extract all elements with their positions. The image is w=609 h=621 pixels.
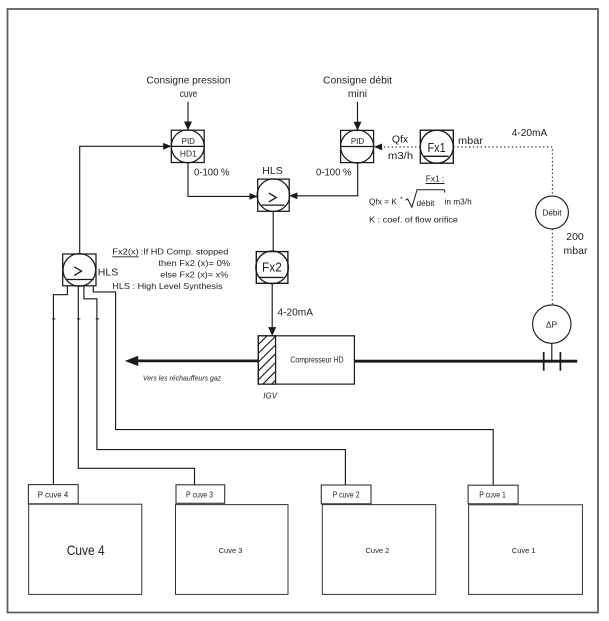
svg-text:Consigne pression: Consigne pression (147, 75, 231, 87)
wire arrow into PID HD1 top (184, 102, 192, 131)
wire HLS middle to Fx2 (272, 211, 274, 251)
svg-text:Fx2(x): Fx2(x) (112, 247, 139, 257)
label K : coef. of flow orifice (369, 215, 458, 225)
svg-text:P cuve 4: P cuve 4 (38, 489, 69, 499)
transmitter box P cuve 3 (176, 485, 225, 504)
label 4-20mA (Fx2 output) (278, 306, 314, 318)
transmitter Debit circle (536, 196, 569, 229)
instrument Fx2 (256, 251, 289, 284)
svg-text:in m3/h: in m3/h (445, 196, 473, 206)
svg-text:else Fx2 (x)= x%: else Fx2 (x)= x% (160, 270, 229, 280)
label 4-20mA (top right) (512, 127, 548, 139)
transmitter box P cuve 1 (468, 485, 518, 504)
wire feedback HLS-left up to PID HD1 (80, 143, 172, 254)
svg-text:HD1: HD1 (180, 149, 197, 159)
svg-text:P cuve 2: P cuve 2 (333, 491, 360, 500)
label Consigne débit mini (323, 75, 392, 100)
wire HLS-left to P cuve 4 (53, 286, 67, 485)
svg-text:m3/h: m3/h (388, 150, 413, 162)
label Fx1 : (underlined) (426, 173, 445, 183)
label HLS (above middle selector) (262, 165, 282, 177)
junction ticks on tank wires (52, 318, 99, 320)
svg-text:Cuve 1: Cuve 1 (512, 546, 536, 555)
svg-text:P cuve 3: P cuve 3 (186, 490, 213, 499)
svg-text:mbar: mbar (458, 135, 484, 147)
svg-text:Cuve 4: Cuve 4 (67, 542, 105, 558)
wire dotted Fx1 to Debit transmitter (453, 147, 552, 196)
tank Cuve 1 (469, 505, 583, 595)
label 200 mbar (564, 231, 588, 257)
transmitter box P cuve 2 (321, 485, 371, 504)
svg-text:200: 200 (566, 231, 584, 243)
svg-text:Fx1 :: Fx1 : (426, 173, 444, 183)
orifice bar right (559, 352, 561, 371)
svg-text:Vers les réchauffeurs gaz: Vers les réchauffeurs gaz (143, 373, 221, 382)
svg-text:P cuve 1: P cuve 1 (479, 491, 506, 500)
label Vers les réchauffeurs gaz (143, 373, 221, 382)
label HLS (right of left selector) (98, 266, 118, 278)
label Qfx (392, 133, 409, 145)
svg-text:4-20mA: 4-20mA (512, 127, 548, 139)
pipe arrow left to reheaters (125, 356, 258, 366)
svg-text:Fx1: Fx1 (428, 140, 446, 155)
svg-text:mbar: mbar (564, 245, 588, 257)
svg-text:cuve: cuve (180, 88, 198, 100)
svg-text:4-20mA: 4-20mA (278, 306, 314, 318)
svg-text:HLS: HLS (262, 165, 282, 177)
wire HLS-left to P cuve 1 (93, 286, 493, 485)
orifice bar left (543, 352, 545, 371)
label Consigne pression cuve (147, 75, 231, 100)
wire Fx2 to compressor (arrow) (268, 283, 276, 336)
instrument Fx1 (420, 130, 453, 163)
tank Cuve 2 (322, 505, 435, 595)
svg-text:débit: débit (417, 198, 436, 208)
wire PID HD1 output to HLS middle (188, 163, 258, 200)
svg-text:Qfx = K: Qfx = K (369, 196, 397, 206)
wire PID debit output to HLS middle (289, 163, 358, 200)
svg-text:Débit: Débit (543, 208, 563, 217)
svg-text:K : coef. of flow orifice: K : coef. of flow orifice (369, 215, 458, 225)
wire HLS-left to P cuve 3 (78, 286, 194, 485)
transmitter DeltaP circle (533, 305, 571, 343)
pipe right (thick) (355, 360, 578, 363)
svg-text:Cuve 2: Cuve 2 (366, 546, 390, 555)
label 0-100 % (left) (194, 166, 230, 178)
wire DeltaP stem to pipe (551, 343, 553, 360)
label m3/h (388, 150, 413, 162)
sqrt radical (406, 190, 446, 208)
IGV hatched box (258, 327, 275, 397)
svg-text:HLS : High Level Synthesis: HLS : High Level Synthesis (112, 281, 222, 291)
label 0-100 % (right) (316, 166, 352, 178)
svg-text:then Fx2 (x)= 0%: then Fx2 (x)= 0% (158, 258, 231, 268)
instrument PID HD1 (171, 130, 204, 163)
label mbar (458, 135, 484, 147)
svg-text:Fx2: Fx2 (262, 260, 282, 275)
svg-text:0-100 %: 0-100 % (194, 166, 230, 178)
svg-text:Compresseur HD: Compresseur HD (290, 356, 343, 365)
wire dotted Fx1 to PID (arrow) (374, 144, 420, 151)
tank Cuve 4 (29, 504, 142, 594)
svg-text:IGV: IGV (263, 391, 277, 400)
wire dotted Debit to DeltaP (551, 229, 553, 305)
instrument HLS selector middle (257, 179, 290, 212)
instrument PID (debit) (341, 130, 374, 163)
svg-text:0-100 %: 0-100 % (316, 166, 352, 178)
svg-text:Cuve 3: Cuve 3 (219, 546, 243, 555)
tank Cuve 3 (176, 505, 289, 595)
svg-text:HLS: HLS (98, 266, 118, 278)
wire HLS-left to P cuve 2 (84, 286, 346, 485)
svg-text:Qfx: Qfx (392, 133, 409, 145)
svg-text:PID: PID (182, 137, 196, 146)
instrument HLS selector left (63, 254, 96, 287)
formula Qfx = K * sqrt(debit) in m3/h (369, 196, 472, 208)
svg-text::If HD Comp. stopped: :If HD Comp. stopped (141, 247, 229, 257)
svg-text:Consigne débit: Consigne débit (323, 75, 392, 87)
label IGV (263, 391, 277, 400)
svg-text:PID: PID (351, 137, 365, 146)
svg-text:mini: mini (348, 88, 367, 100)
annotation Fx2(x) block (112, 247, 231, 291)
svg-text:ΔP: ΔP (546, 319, 558, 329)
compressor rectangle (258, 336, 354, 384)
svg-text:*: * (400, 196, 403, 203)
transmitter box P cuve 4 (28, 485, 78, 504)
underline Fx2(x) (112, 256, 138, 258)
wire arrow into PID top (354, 102, 362, 131)
